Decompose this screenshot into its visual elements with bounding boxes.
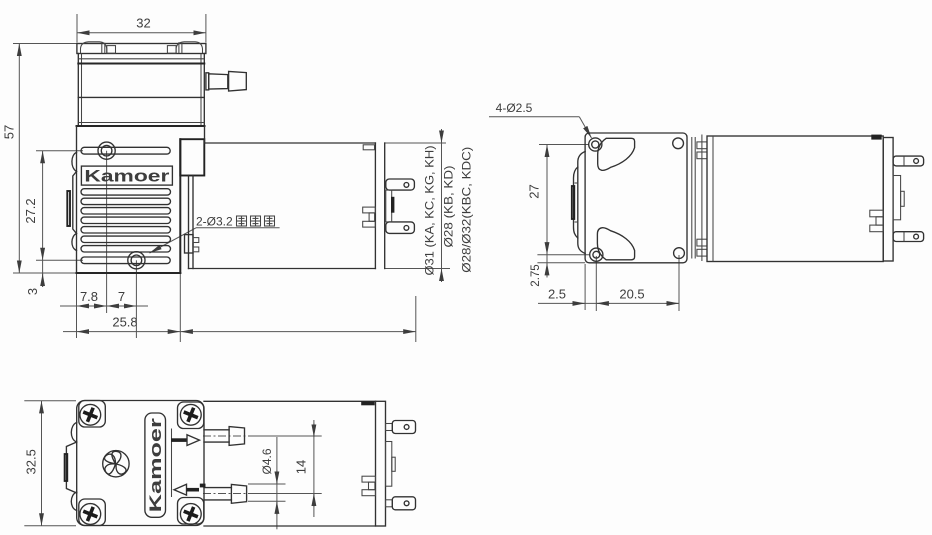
port centerline lower <box>203 493 255 495</box>
fake CJK glyph kong <box>265 216 275 226</box>
motor mount tab <box>185 235 194 253</box>
svg-text:Kamoer: Kamoer <box>84 167 170 185</box>
pump dome profile layer2 <box>574 167 578 238</box>
svg-text:Ø28/Ø32(KBC, KDC): Ø28/Ø32(KBC, KDC) <box>460 147 474 273</box>
dimension 32 extension lines <box>76 14 78 43</box>
hose barb tube <box>209 74 228 89</box>
screw pad bottom-left <box>79 499 106 526</box>
cooling rib 7 <box>81 246 171 252</box>
svg-text:32.5: 32.5 <box>24 449 39 474</box>
extension line body right edge <box>179 274 181 342</box>
dimension 32.5 line <box>41 401 43 526</box>
brush housing <box>893 176 901 220</box>
cooling rib 3 <box>81 208 171 214</box>
hose barb tip <box>229 71 247 91</box>
pump dome ticks <box>575 182 579 184</box>
cap top clip dark <box>361 401 375 405</box>
front plate <box>585 133 687 263</box>
terminal lower <box>893 232 924 242</box>
screw bottom-left <box>80 504 101 525</box>
corner hole top-right <box>673 138 684 149</box>
svg-text:2-Ø3.2: 2-Ø3.2 <box>196 215 233 229</box>
gearbox boss <box>180 139 204 175</box>
cooling rib 1 <box>81 189 171 195</box>
brush housing <box>386 442 392 487</box>
body left clamp bar <box>67 191 70 226</box>
leader arrow to mounting hole <box>150 228 197 253</box>
dimension 14 line with outside arrows <box>313 420 315 517</box>
bracket tab bottom b <box>697 249 707 256</box>
head plate seam lines <box>78 58 204 60</box>
flange screw right <box>176 42 202 53</box>
extension verticals below plate <box>584 264 586 310</box>
fake CJK glyph zhuang <box>251 216 261 226</box>
motor terminal upper <box>386 179 415 190</box>
svg-text:3: 3 <box>25 288 40 295</box>
pump dome profile layer1 <box>578 152 585 254</box>
fake CJK glyph an <box>237 216 247 226</box>
pump dome clamp bar <box>572 186 575 219</box>
head left profile <box>66 442 76 493</box>
cooling rib 5 <box>81 227 171 233</box>
label underline <box>196 227 280 229</box>
port lower barb <box>231 484 246 503</box>
port upper barb <box>229 427 244 446</box>
Kamoer emblem circle <box>103 451 129 477</box>
svg-text:Ø28 (KB, KD): Ø28 (KB, KD) <box>442 166 456 248</box>
Kamoer logo box <box>81 166 172 185</box>
screw pad top-left <box>79 401 106 428</box>
bracket tab bottom a <box>697 239 707 246</box>
dimension 25.8 line <box>63 331 77 333</box>
flange screw left <box>81 42 107 53</box>
cap side clamp <box>870 210 883 217</box>
motor bracket plates <box>691 137 693 259</box>
cap side clamp <box>362 476 376 482</box>
screw pad bottom-right <box>178 498 204 525</box>
svg-text:2.5: 2.5 <box>548 287 566 302</box>
hose barb ring <box>206 73 209 90</box>
screw top-left <box>80 404 101 425</box>
dimension dia4.6 line with outside arrows <box>276 437 278 529</box>
port lower weld mark <box>200 484 206 488</box>
dimension 27 line <box>546 145 548 255</box>
dimension 32 line <box>77 32 206 34</box>
dimension dia4.6 extension lines <box>248 483 286 485</box>
dimension dia31 line with outside arrows <box>441 143 443 269</box>
pump head top flange <box>77 44 206 54</box>
eccentric housing walls <box>188 176 190 269</box>
svg-text:14: 14 <box>294 460 309 474</box>
svg-text:Kamoer: Kamoer <box>147 417 165 512</box>
brush housing <box>386 190 392 222</box>
flow arrow in (upper) <box>171 438 187 442</box>
mounting hole 2 <box>128 252 145 269</box>
centerline hole 2 <box>135 260 137 338</box>
mounting slot bottom <box>81 257 170 264</box>
terminal upper <box>386 424 393 431</box>
port lower tube <box>204 487 231 489</box>
dimension 2.5 and 20.5 baseline <box>538 302 679 304</box>
svg-text:27: 27 <box>527 184 542 198</box>
dimension 7.8 line <box>60 305 77 307</box>
cover plate edge <box>171 429 173 498</box>
corner hole bottom-right <box>674 248 685 259</box>
cooling rib 4 <box>81 217 171 223</box>
svg-text:25.8: 25.8 <box>112 315 137 330</box>
svg-text:7.8: 7.8 <box>80 289 98 304</box>
svg-text:27.2: 27.2 <box>23 198 38 223</box>
corner hole top-left <box>589 138 602 151</box>
pump body outline <box>76 126 78 273</box>
svg-text:4-Ø2.5: 4-Ø2.5 <box>496 101 533 115</box>
body left clamp bump bottom <box>72 234 77 251</box>
corner hole bottom-left <box>590 248 603 261</box>
screw bottom-right <box>180 504 201 525</box>
cooling rib 6 <box>81 236 171 242</box>
svg-text:57: 57 <box>2 125 17 139</box>
head left clamp bar <box>65 454 68 481</box>
mounting hole 1 <box>98 142 115 159</box>
motor cap top clip <box>363 145 374 150</box>
extension line body left edge <box>76 274 78 338</box>
lightening pocket bottom <box>597 228 634 260</box>
cap top clip dark <box>871 135 881 140</box>
leader arrow to corner hole <box>579 117 591 138</box>
motor body <box>707 136 883 262</box>
motor cap side clamp <box>363 207 376 213</box>
head-to-motor step wall <box>204 126 206 143</box>
extension line terminal end <box>415 296 417 342</box>
mounting slot top <box>81 147 170 154</box>
motor body bottom <box>189 268 376 270</box>
motor body top <box>204 142 375 144</box>
head plate bottom view <box>77 401 204 526</box>
port centerline upper <box>203 435 253 437</box>
terminal lower <box>386 500 393 507</box>
head left profile bump top <box>71 423 76 443</box>
dimension 7 line <box>107 305 137 307</box>
head bottom edge <box>77 125 205 127</box>
flow arrow out (lower) <box>174 484 187 495</box>
dimension dia31 extension lines <box>385 142 446 144</box>
dimension 57 line <box>18 44 20 274</box>
dimension 2.75 line and arrow <box>546 255 548 263</box>
centerline hole 1 <box>106 151 108 313</box>
motor can seam <box>712 136 714 262</box>
screw pad top-right <box>178 402 204 429</box>
Kamoer strip <box>145 413 166 517</box>
svg-text:Ø4.6: Ø4.6 <box>260 448 274 474</box>
head left profile bump bottom <box>71 492 76 511</box>
body left profile <box>73 172 77 234</box>
bracket tab top b <box>697 152 707 159</box>
dimension 27 extension lines <box>539 144 589 146</box>
dimension 32.5 extension lines <box>24 400 76 402</box>
motor end cap <box>376 401 386 526</box>
svg-text:7: 7 <box>118 289 125 304</box>
body left clamp bump top <box>72 153 77 172</box>
emblem petals <box>112 451 121 464</box>
svg-text:2.75: 2.75 <box>530 264 542 286</box>
motor body bottom view <box>204 400 376 402</box>
motor terminal lower <box>386 222 415 234</box>
bracket tab top a <box>697 142 707 149</box>
dimension 3 line and arrow <box>42 260 44 287</box>
dimension 27.2 line <box>42 151 44 261</box>
dimension 27.2 extension lines <box>36 150 83 152</box>
unlabeled overall dimension line <box>180 331 415 333</box>
dimension 57 extension lines <box>13 43 77 45</box>
cooling rib 2 <box>81 198 171 204</box>
terminal upper <box>893 156 924 166</box>
screw top-right <box>180 404 201 425</box>
motor end cap band <box>374 143 376 269</box>
port upper tube <box>204 429 229 431</box>
svg-text:32: 32 <box>136 16 150 31</box>
svg-text:20.5: 20.5 <box>619 287 644 302</box>
motor end cap <box>883 138 893 262</box>
plate bottom extension <box>537 262 585 264</box>
lightening pocket top <box>598 138 635 170</box>
head block side walls <box>77 54 79 127</box>
svg-text:Ø31 (KA, KC, KG, KH): Ø31 (KA, KC, KG, KH) <box>423 146 437 276</box>
